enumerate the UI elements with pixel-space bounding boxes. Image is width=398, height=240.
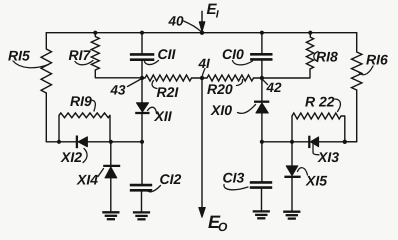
- capacitor C12: [130, 142, 182, 212]
- diode X14: [76, 142, 120, 212]
- node: R18 top junction: [308, 31, 312, 35]
- svg-text:XI0: XI0: [210, 102, 232, 118]
- ground under X15: [283, 212, 300, 219]
- svg-text:CII: CII: [158, 46, 177, 62]
- capacitor C10: [222, 33, 273, 78]
- wire top supply rail: [46, 32, 356, 34]
- svg-text:RI8: RI8: [316, 49, 338, 65]
- svg-text:RI6: RI6: [366, 52, 388, 68]
- resistor R20: [202, 75, 262, 97]
- node: C10 top junction: [260, 31, 264, 35]
- wire lower-right horizontal: [262, 141, 357, 143]
- capacitor C13: [223, 142, 273, 211]
- resistor R19: [59, 93, 110, 142]
- ground under X14: [102, 212, 119, 219]
- ground under C12: [133, 212, 150, 219]
- diode X12: [60, 136, 87, 166]
- node 41: [198, 56, 211, 80]
- diode X10: [210, 78, 269, 142]
- diode X15: [284, 142, 327, 212]
- svg-text:I: I: [216, 9, 220, 21]
- resistor R16: [345, 33, 388, 142]
- svg-text:RI7: RI7: [69, 47, 92, 63]
- svg-text:CI3: CI3: [223, 170, 245, 186]
- resistor R21: [142, 75, 202, 100]
- output arrow E_O: [199, 78, 228, 234]
- diode X11: [135, 78, 173, 142]
- node: R22 right / R16 bottom junction: [343, 140, 347, 144]
- svg-text:RI5: RI5: [8, 48, 30, 64]
- node: X14 top junction: [109, 140, 113, 144]
- diode X13: [309, 136, 339, 165]
- node 42: [260, 76, 282, 95]
- svg-text:40: 40: [168, 14, 185, 29]
- node: R17 top junction: [93, 31, 97, 35]
- svg-text:R2I: R2I: [157, 84, 180, 100]
- node 40: [168, 14, 205, 35]
- node 43: [110, 76, 145, 98]
- node: X10/C13 junction: [260, 140, 264, 144]
- input arrow E_I: [199, 1, 220, 32]
- wire lower-left horizontal: [46, 141, 142, 143]
- node: C12 top junction: [140, 140, 144, 144]
- node: R19 left junction: [57, 140, 61, 144]
- svg-text:XI2: XI2: [60, 149, 82, 165]
- svg-text:43: 43: [110, 83, 127, 98]
- resistor R15: [8, 33, 52, 142]
- svg-text:4I: 4I: [198, 56, 211, 71]
- resistor R18: [262, 33, 338, 78]
- svg-text:XI5: XI5: [305, 173, 327, 189]
- svg-text:CI0: CI0: [222, 46, 244, 62]
- resistor R22: [292, 94, 345, 142]
- capacitor C11: [130, 33, 177, 78]
- svg-text:R20: R20: [207, 81, 233, 97]
- ground under C13: [253, 211, 270, 218]
- svg-text:CI2: CI2: [160, 171, 182, 187]
- svg-text:42: 42: [266, 80, 283, 95]
- svg-text:XI3: XI3: [317, 149, 339, 165]
- node: R22 left / X15 junction: [290, 140, 294, 144]
- node: C11 top junction: [140, 31, 144, 35]
- svg-text:R 22: R 22: [305, 94, 335, 110]
- svg-text:XI4: XI4: [76, 172, 98, 188]
- svg-text:RI9: RI9: [70, 93, 92, 109]
- svg-text:O: O: [218, 220, 228, 234]
- resistor R17: [69, 33, 143, 78]
